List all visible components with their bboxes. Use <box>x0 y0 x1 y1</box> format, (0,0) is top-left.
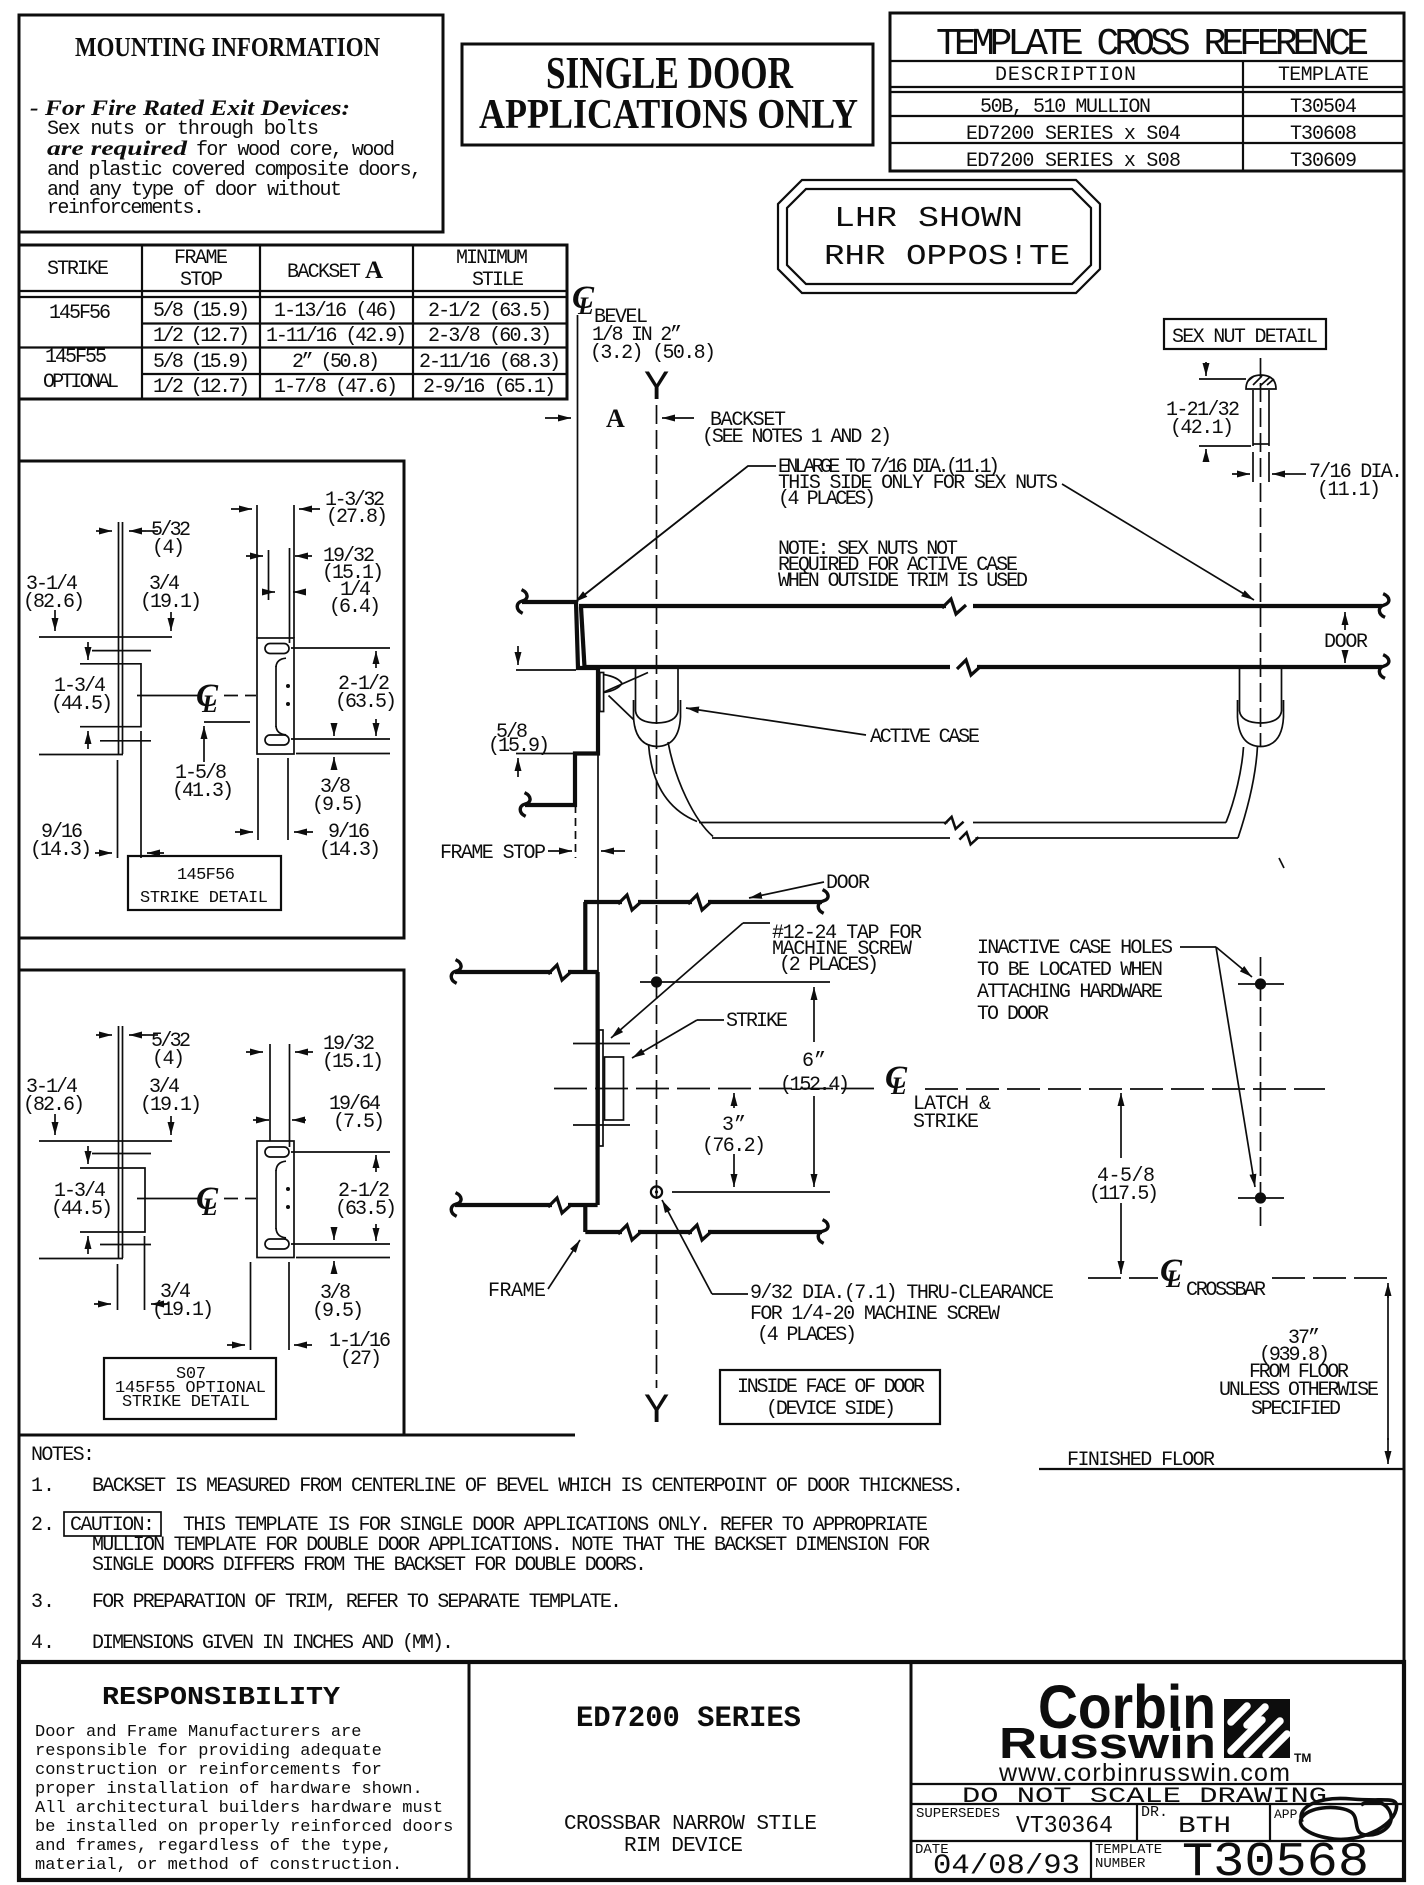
svg-text:(117.5): (117.5) <box>1089 1183 1159 1206</box>
svg-text:MOUNTING INFORMATION: MOUNTING INFORMATION <box>75 32 380 62</box>
svg-text:(11.1): (11.1) <box>1317 479 1381 502</box>
svg-text:1.: 1. <box>31 1475 55 1498</box>
svg-text:(27): (27) <box>340 1348 382 1371</box>
svg-text:RHR OPPOS!TE: RHR OPPOS!TE <box>824 240 1070 273</box>
svg-text:FOR 1/4-20 MACHINE SCREW: FOR 1/4-20 MACHINE SCREW <box>750 1303 1000 1326</box>
svg-text:OPTIONAL: OPTIONAL <box>43 371 119 394</box>
svg-text:TEMPLATE: TEMPLATE <box>1278 64 1369 87</box>
svg-text:INACTIVE CASE HOLES: INACTIVE CASE HOLES <box>977 937 1173 960</box>
svg-text:(82.6): (82.6) <box>23 1094 85 1117</box>
svg-text:be installed on properly reinf: be installed on properly reinforced door… <box>35 1818 453 1837</box>
svg-text:and frames, regardless of the: and frames, regardless of the type, <box>35 1837 392 1856</box>
svg-text:(3.2) (50.8): (3.2) (50.8) <box>590 342 716 365</box>
svg-text:A: A <box>606 404 625 433</box>
svg-text:ED7200 SERIES: ED7200 SERIES <box>576 1702 801 1736</box>
svg-text:- For Fire Rated Exit Devices:: - For Fire Rated Exit Devices: <box>30 95 350 120</box>
svg-text:Door and Frame Manufacturers a: Door and Frame Manufacturers are <box>35 1723 361 1742</box>
svg-text:5/8 (15.9): 5/8 (15.9) <box>153 351 250 374</box>
svg-text:1-7/8 (47.6): 1-7/8 (47.6) <box>274 376 398 399</box>
svg-text:(9.5): (9.5) <box>312 1300 364 1323</box>
svg-text:(44.5): (44.5) <box>51 1198 113 1221</box>
svg-text:1/2 (12.7): 1/2 (12.7) <box>153 325 250 348</box>
svg-text:DR.: DR. <box>1141 1804 1168 1821</box>
svg-text:(6.4): (6.4) <box>329 596 381 619</box>
svg-text:proper installation of hardwar: proper installation of hardware shown. <box>35 1780 423 1799</box>
svg-text:T30609: T30609 <box>1290 150 1357 173</box>
svg-text:RIM DEVICE: RIM DEVICE <box>624 1835 743 1858</box>
svg-text:(63.5): (63.5) <box>335 691 397 714</box>
svg-text:TO BE LOCATED WHEN: TO BE LOCATED WHEN <box>977 959 1163 982</box>
svg-text:(4 PLACES): (4 PLACES) <box>778 488 876 511</box>
svg-text:9/32 DIA.(7.1) THRU-CLEARANCE: 9/32 DIA.(7.1) THRU-CLEARANCE <box>750 1282 1054 1305</box>
svg-text:T30568: T30568 <box>1182 1836 1369 1885</box>
svg-text:145F56: 145F56 <box>49 302 111 325</box>
svg-text:STILE: STILE <box>472 269 524 292</box>
svg-text:RESPONSIBILITY: RESPONSIBILITY <box>102 1682 340 1712</box>
svg-text:All architectural builders har: All architectural builders hardware must <box>35 1799 443 1818</box>
svg-text:responsible for providing adeq: responsible for providing adequate <box>35 1742 382 1761</box>
svg-text:(82.6): (82.6) <box>23 591 85 614</box>
svg-text:CROSSBAR: CROSSBAR <box>1186 1279 1266 1302</box>
svg-text:2-9/16 (65.1): 2-9/16 (65.1) <box>423 376 556 399</box>
svg-text:FRAME: FRAME <box>174 247 228 270</box>
svg-text:(42.1): (42.1) <box>1170 417 1234 440</box>
svg-text:1-11/16 (42.9): 1-11/16 (42.9) <box>266 325 407 348</box>
svg-text:(41.3): (41.3) <box>172 780 234 803</box>
svg-text:SPECIFIED: SPECIFIED <box>1251 1398 1341 1421</box>
svg-text:FRAME: FRAME <box>488 1280 546 1303</box>
svg-text:material, or method of constru: material, or method of construction. <box>35 1856 402 1875</box>
svg-text:NOTES:: NOTES: <box>31 1444 95 1467</box>
svg-text:SEX NUT DETAIL: SEX NUT DETAIL <box>1172 326 1318 349</box>
svg-text:(14.3): (14.3) <box>30 839 92 862</box>
svg-text:(4): (4) <box>152 537 185 560</box>
svg-text:LHR SHOWN: LHR SHOWN <box>834 202 1023 235</box>
svg-text:3.: 3. <box>31 1591 55 1614</box>
svg-text:(15.1): (15.1) <box>322 1051 384 1074</box>
svg-text:Y: Y <box>644 1387 669 1435</box>
svg-text:STRIKE DETAIL: STRIKE DETAIL <box>140 889 268 908</box>
svg-text:FRAME STOP: FRAME STOP <box>440 842 546 865</box>
svg-text:145F55: 145F55 <box>45 346 107 369</box>
svg-text:(2 PLACES): (2 PLACES) <box>779 954 879 977</box>
svg-text:DOOR: DOOR <box>1324 631 1368 654</box>
svg-text:(63.5): (63.5) <box>335 1198 397 1221</box>
svg-text:5/8 (15.9): 5/8 (15.9) <box>153 300 250 323</box>
svg-text:(19.1): (19.1) <box>152 1299 214 1322</box>
svg-text:2” (50.8): 2” (50.8) <box>292 351 380 374</box>
svg-text:3”: 3” <box>722 1114 746 1137</box>
svg-text:50B, 510 MULLION: 50B, 510 MULLION <box>980 96 1151 119</box>
svg-text:A: A <box>365 257 383 284</box>
svg-text:6”: 6” <box>802 1050 826 1073</box>
svg-text:STRIKE: STRIKE <box>726 1010 788 1033</box>
svg-text:(44.5): (44.5) <box>51 693 113 716</box>
svg-text:04/08/93: 04/08/93 <box>933 1851 1080 1882</box>
svg-text:SUPERSEDES: SUPERSEDES <box>916 1806 1000 1822</box>
svg-text:145F56: 145F56 <box>177 866 235 885</box>
svg-text:TEMPLATE CROSS REFERENCE: TEMPLATE CROSS REFERENCE <box>936 23 1369 66</box>
svg-text:BACKSET: BACKSET <box>287 261 361 284</box>
svg-text:DIMENSIONS GIVEN IN INCHES AND: DIMENSIONS GIVEN IN INCHES AND (MM). <box>92 1632 454 1655</box>
svg-text:(27.8): (27.8) <box>326 506 388 529</box>
svg-text:CROSSBAR NARROW STILE: CROSSBAR NARROW STILE <box>564 1813 817 1836</box>
svg-text:(14.3): (14.3) <box>319 839 381 862</box>
svg-text:2.: 2. <box>31 1514 55 1537</box>
svg-text:are required: are required <box>47 136 188 160</box>
svg-text:ED7200 SERIES x S04: ED7200 SERIES x S04 <box>966 123 1181 146</box>
svg-text:SINGLE DOOR: SINGLE DOOR <box>546 48 793 98</box>
svg-text:(4): (4) <box>152 1048 185 1071</box>
svg-text:construction or reinforcements: construction or reinforcements for <box>35 1761 382 1780</box>
svg-text:2-3/8 (60.3): 2-3/8 (60.3) <box>428 325 552 348</box>
svg-text:1/2 (12.7): 1/2 (12.7) <box>153 376 250 399</box>
svg-text:STRIKE: STRIKE <box>913 1111 979 1134</box>
svg-text:(15.9): (15.9) <box>488 735 550 758</box>
svg-text:2-11/16 (68.3): 2-11/16 (68.3) <box>419 351 561 374</box>
svg-text:(19.1): (19.1) <box>140 591 202 614</box>
svg-text:(152.4): (152.4) <box>780 1074 850 1097</box>
svg-text:TM: TM <box>1294 1751 1311 1765</box>
svg-text:(4 PLACES): (4 PLACES) <box>757 1324 857 1347</box>
svg-text:NUMBER: NUMBER <box>1095 1856 1146 1872</box>
svg-text:(7.5): (7.5) <box>333 1111 385 1134</box>
svg-text:DOOR: DOOR <box>826 872 870 895</box>
svg-text:FOR PREPARATION OF TRIM, REFER: FOR PREPARATION OF TRIM, REFER TO SEPARA… <box>92 1591 622 1614</box>
svg-text:Y: Y <box>644 364 669 412</box>
svg-text:(19.1): (19.1) <box>140 1094 202 1117</box>
svg-text:ED7200 SERIES x S08: ED7200 SERIES x S08 <box>966 150 1181 173</box>
svg-text:STRIKE: STRIKE <box>47 258 109 281</box>
svg-text:WHEN OUTSIDE TRIM IS USED: WHEN OUTSIDE TRIM IS USED <box>778 570 1028 593</box>
svg-text:VT30364: VT30364 <box>1016 1813 1113 1840</box>
svg-text:1-13/16 (46): 1-13/16 (46) <box>274 300 398 323</box>
svg-text:(76.2): (76.2) <box>702 1135 766 1158</box>
svg-text:APPLICATIONS ONLY: APPLICATIONS ONLY <box>479 92 858 138</box>
svg-text:INSIDE FACE OF DOOR: INSIDE FACE OF DOOR <box>737 1376 925 1399</box>
svg-text:ACTIVE CASE: ACTIVE CASE <box>870 726 980 749</box>
svg-text:(DEVICE SIDE): (DEVICE SIDE) <box>766 1398 896 1421</box>
svg-text:BACKSET IS MEASURED FROM CENTE: BACKSET IS MEASURED FROM CENTERLINE OF B… <box>92 1475 964 1498</box>
svg-text:STRIKE DETAIL: STRIKE DETAIL <box>122 1393 250 1412</box>
svg-text:MINIMUM: MINIMUM <box>456 247 528 270</box>
svg-text:(9.5): (9.5) <box>312 794 364 817</box>
svg-text:www.corbinrusswin.com: www.corbinrusswin.com <box>998 1759 1290 1787</box>
svg-text:T30608: T30608 <box>1290 123 1357 146</box>
svg-text:4.: 4. <box>31 1632 55 1655</box>
svg-text:T30504: T30504 <box>1290 96 1357 119</box>
svg-text:DESCRIPTION: DESCRIPTION <box>995 64 1136 87</box>
svg-text:ATTACHING HARDWARE: ATTACHING HARDWARE <box>977 981 1163 1004</box>
svg-text:SINGLE DOORS DIFFERS FROM THE: SINGLE DOORS DIFFERS FROM THE BACKSET FO… <box>92 1554 647 1577</box>
svg-text:STOP: STOP <box>180 269 223 292</box>
svg-text:TO DOOR: TO DOOR <box>977 1003 1049 1026</box>
svg-text:(SEE NOTES 1 AND 2): (SEE NOTES 1 AND 2) <box>702 426 892 449</box>
svg-text:reinforcements.: reinforcements. <box>47 197 205 220</box>
svg-text:2-1/2 (63.5): 2-1/2 (63.5) <box>428 300 552 323</box>
